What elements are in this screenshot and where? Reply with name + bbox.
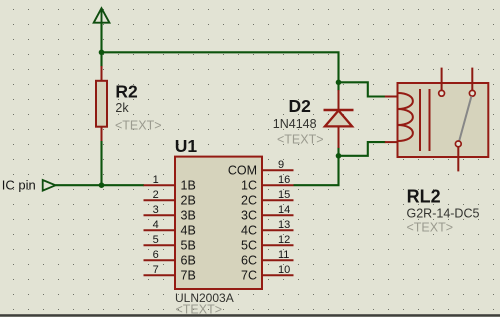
svg-text:7C: 7C: [241, 269, 257, 283]
wire node to relay coil bottom: [339, 142, 386, 156]
op-amp U1 body ULN2003A: [175, 157, 262, 289]
window frame bottom edge: [0, 314, 500, 316]
svg-text:7B: 7B: [181, 269, 196, 283]
svg-text:13: 13: [278, 219, 290, 231]
svg-text:11: 11: [278, 249, 289, 261]
relay RL2 body: [398, 83, 489, 157]
svg-text:2: 2: [153, 189, 159, 201]
svg-text:9: 9: [278, 159, 284, 171]
svg-text:U1: U1: [175, 136, 198, 156]
node junction at R2 top: [99, 50, 105, 56]
pin 2 (2B): [144, 189, 196, 208]
node junction input row: [99, 182, 105, 188]
svg-text:2B: 2B: [181, 194, 196, 208]
wire U1 pin16 to diode node: [294, 156, 339, 185]
svg-text:7: 7: [153, 264, 159, 276]
svg-text:14: 14: [278, 204, 290, 216]
svg-text:6B: 6B: [181, 254, 196, 268]
wire diode bottom stub: [337, 147, 339, 156]
svg-text:<TEXT>: <TEXT>: [407, 221, 454, 235]
svg-text:1N4148: 1N4148: [273, 117, 317, 131]
relay contact post NC: [441, 68, 443, 91]
wire diode top stub: [337, 82, 339, 91]
svg-text:<TEXT>: <TEXT>: [277, 133, 324, 147]
pin 9 (COM): [228, 159, 294, 178]
power symbol VCC: [94, 8, 110, 23]
svg-text:3C: 3C: [241, 209, 257, 223]
svg-text:<TEXT>: <TEXT>: [115, 119, 162, 133]
relay switch blade: [459, 96, 471, 141]
svg-text:6C: 6C: [241, 254, 257, 268]
pin 12 (5C): [241, 234, 293, 253]
svg-text:4B: 4B: [181, 224, 196, 238]
pin 7 (7B): [144, 264, 196, 283]
pin 13 (4C): [241, 219, 293, 238]
wire R2 top stub: [100, 52, 102, 67]
svg-text:COM: COM: [228, 164, 257, 178]
pin 4 (4B): [144, 219, 196, 238]
svg-text:2C: 2C: [241, 194, 257, 208]
wire input to U1 pin 1: [56, 184, 145, 186]
svg-text:D2: D2: [289, 96, 312, 116]
wire R2 bottom to input row: [100, 141, 102, 185]
svg-text:1C: 1C: [241, 179, 257, 193]
wire top horizontal run: [102, 52, 339, 82]
svg-text:5: 5: [153, 234, 159, 246]
pin 6 (6B): [144, 249, 196, 268]
svg-text:3B: 3B: [181, 209, 196, 223]
pin 16 (1C): [241, 174, 293, 193]
svg-text:12: 12: [278, 234, 290, 246]
relay coil pin top: [385, 96, 398, 98]
svg-text:IC pin: IC pin: [2, 178, 36, 193]
svg-text:16: 16: [278, 174, 290, 186]
pin 14 (3C): [241, 204, 293, 223]
pin 1 (1B): [144, 174, 196, 193]
svg-text:G2R-14-DC5: G2R-14-DC5: [407, 207, 480, 221]
pin 10 (7C): [241, 264, 293, 283]
node junction diode anode: [336, 153, 342, 159]
svg-text:15: 15: [278, 189, 290, 201]
node junction diode cathode: [336, 80, 342, 86]
svg-text:RL2: RL2: [407, 186, 441, 206]
relay contact circle common: [455, 141, 461, 147]
diode D2 1N4148: [324, 90, 354, 148]
pin 11 (6C): [241, 249, 293, 268]
relay coil: [398, 93, 413, 141]
relay core line 1: [419, 89, 421, 151]
svg-text:3: 3: [153, 204, 159, 216]
relay contact post NO: [471, 68, 473, 91]
relay contact circle NO: [469, 90, 475, 96]
resistor R2: [96, 66, 107, 142]
svg-text:6: 6: [153, 249, 159, 261]
svg-text:4: 4: [153, 219, 159, 231]
svg-text:10: 10: [278, 264, 290, 276]
relay coil pin bottom: [385, 141, 398, 143]
svg-text:1: 1: [153, 174, 159, 186]
terminal IC pin input: [43, 180, 56, 191]
wire node to relay coil top: [339, 82, 386, 96]
relay common post: [457, 147, 459, 172]
pin 5 (5B): [144, 234, 196, 253]
svg-text:R2: R2: [115, 82, 138, 102]
svg-text:4C: 4C: [241, 224, 257, 238]
svg-text:2k: 2k: [115, 101, 129, 115]
pin 3 (3B): [144, 204, 196, 223]
relay contact circle NC: [439, 90, 445, 96]
svg-text:5C: 5C: [241, 239, 257, 253]
pin 15 (2C): [241, 189, 293, 208]
relay core line 2: [429, 89, 431, 151]
svg-text:1B: 1B: [181, 179, 196, 193]
wire power stem: [100, 23, 102, 53]
svg-text:5B: 5B: [181, 239, 196, 253]
